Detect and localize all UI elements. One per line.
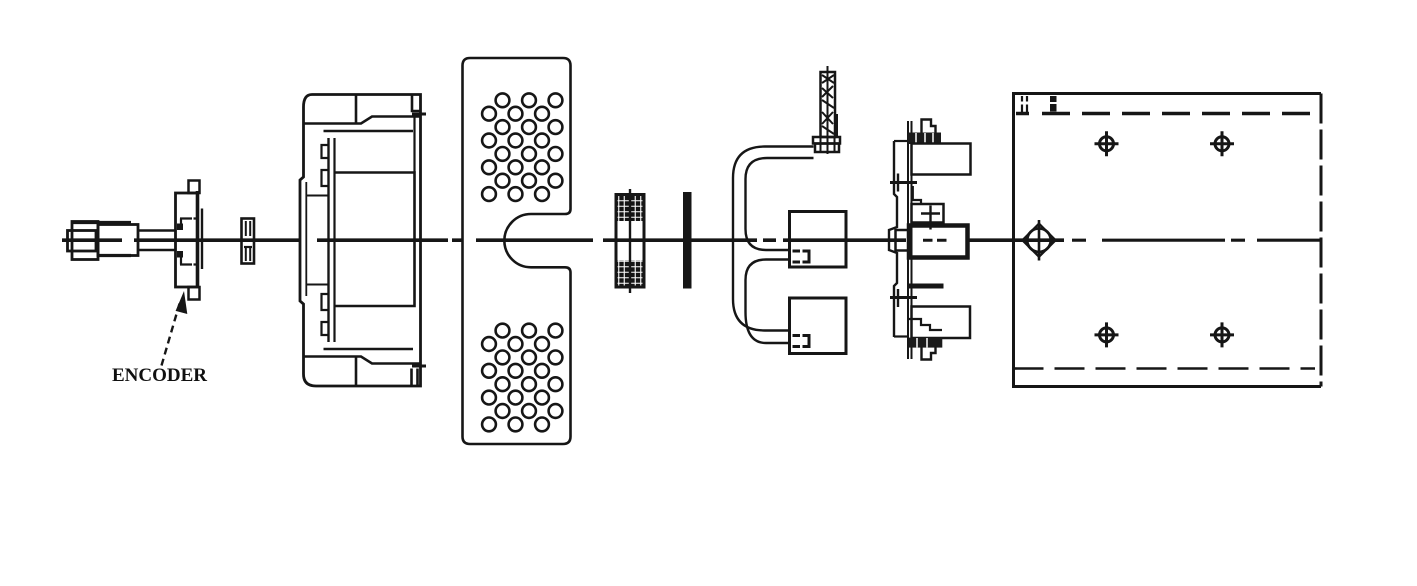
brush plate bottom hatch block — [909, 338, 943, 348]
washer W1 inner dash — [244, 246, 252, 248]
motor body tick 2 lower — [1050, 104, 1057, 112]
brush plate screw cross lower vertical — [897, 289, 899, 307]
washer W1 — [242, 219, 255, 264]
terminal bolt shaft — [821, 72, 836, 137]
end cap top seam — [355, 95, 358, 124]
center pilot hole diamond — [1023, 224, 1056, 257]
encoder top tab — [189, 181, 200, 194]
brush box lower clip bars — [793, 336, 801, 347]
brush wire inner edge — [746, 158, 814, 250]
bearing outer — [616, 195, 644, 288]
brush plate top hatch block — [908, 133, 942, 145]
end cap bottom step line — [304, 357, 421, 364]
shaft knob front cap — [68, 231, 97, 252]
encoder disc outer line — [201, 209, 203, 270]
brush plate lower right rect — [912, 307, 971, 339]
brush box upper clip bars — [793, 251, 801, 262]
vent plate holes top group — [482, 93, 562, 201]
brush stub bar — [909, 284, 944, 289]
end cap top right notch — [412, 95, 421, 112]
brush plate screw cross upper vertical — [897, 174, 899, 192]
brush plate bottom tab — [922, 348, 936, 360]
brush wire outer edge — [733, 147, 814, 331]
encoder hub bracket upper — [180, 219, 198, 231]
motor body bottom hidden dashed line — [1014, 367, 1316, 370]
center pilot hole circle — [1027, 228, 1051, 252]
shaft knob outer shell — [72, 222, 98, 260]
terminal bolt collar — [815, 144, 839, 153]
end cap notch lower B — [322, 322, 329, 335]
label ENCODER — [112, 365, 207, 387]
brush box upper — [790, 212, 847, 268]
mounting hole crosshair top left — [1095, 131, 1119, 156]
brush box upper clip bracket — [803, 251, 810, 262]
wire: centerline dash-dot inside motor body — [1072, 239, 1322, 242]
motor body top hidden dashed line — [1042, 112, 1315, 116]
leader arrowhead — [176, 291, 188, 314]
encoder body — [176, 193, 198, 287]
end cap left boss inner line — [305, 182, 307, 296]
mounting hole crosshair bottom right — [1210, 322, 1234, 347]
brush box lower — [790, 298, 847, 354]
end cap notch upper A — [322, 145, 329, 158]
end cap connector lower — [306, 284, 329, 286]
brush plate upper right rect — [912, 144, 971, 175]
end cap bottom right notch — [412, 369, 418, 387]
brush plate top tie — [894, 140, 908, 142]
end cap bottom right tick — [412, 365, 426, 368]
encoder hub block upper — [177, 224, 183, 231]
encoder bottom tab — [189, 287, 200, 300]
bearing hatch bottom — [618, 261, 643, 286]
brush plate upper step — [913, 186, 921, 205]
brush plate top hatch slits — [916, 133, 933, 144]
end cap connector upper — [306, 195, 329, 197]
brush plate screw cross upper — [890, 181, 917, 184]
end cap top right tick — [412, 113, 426, 116]
brush plate screw cross lower — [890, 296, 917, 299]
end cap bottom inner line — [324, 348, 414, 350]
brush box lower clip bracket — [803, 336, 810, 347]
center pilot hole vertical line — [1038, 220, 1041, 261]
end cap notch lower A — [322, 294, 329, 310]
bearing vertical centerline — [629, 189, 631, 293]
wire: main horizontal centerline segment 1 (shaft through encoder) — [62, 238, 906, 242]
encoder hub block lower — [177, 251, 183, 258]
vent plate holes bottom group — [482, 324, 562, 432]
shaft knob top bar — [72, 221, 131, 224]
vent plate outline — [463, 58, 571, 444]
brush plate lower staircase — [909, 319, 942, 330]
brush wire branch edge — [746, 260, 790, 344]
washer W1 inner walls — [246, 221, 250, 261]
wire: centerline segment through motor body left — [968, 238, 1065, 242]
end cap top inner line — [324, 130, 414, 132]
encoder hub bracket lower — [180, 252, 198, 265]
brush plate left contour — [889, 141, 897, 337]
terminal bolt stem — [827, 66, 829, 154]
end cap bottom seam — [355, 357, 358, 387]
shaft lower edge to encoder — [138, 249, 176, 251]
shaft mid bottom bar — [98, 254, 131, 257]
motor body outline (left/top/bottom solid) — [1014, 94, 1322, 387]
end cap inner wall left — [327, 138, 329, 342]
wire: centerline dashes inside commutator — [923, 239, 947, 242]
shim washer (solid) — [683, 192, 692, 289]
shaft upper edge to encoder — [138, 229, 176, 231]
brush plate main wall double line — [908, 121, 912, 359]
terminal bolt shadow line — [836, 114, 838, 137]
bearing hatch top — [618, 196, 643, 221]
brush plate small box cross — [921, 206, 940, 230]
end cap outer outline — [300, 95, 421, 387]
leader arrow dashed line — [162, 302, 181, 366]
mounting hole crosshair bottom left — [1095, 322, 1119, 347]
brush plate small box with cross — [912, 204, 944, 223]
terminal bolt thread marks — [822, 75, 834, 134]
end cap inner wall right — [333, 138, 335, 342]
motor body right edge dashed — [1320, 94, 1323, 387]
commutator left protrusion — [896, 230, 910, 251]
end cap notch upper B — [322, 170, 329, 186]
end cap inner box — [335, 173, 415, 307]
brush plate bottom tie — [894, 335, 908, 337]
terminal bolt collar verticals — [821, 137, 835, 152]
commutator outer — [909, 226, 968, 258]
encoder disc right edge — [196, 191, 200, 288]
motor body tick 1 — [1022, 96, 1027, 112]
end cap top step line — [304, 117, 421, 124]
shaft mid section — [98, 225, 138, 256]
mounting hole crosshair top right — [1210, 131, 1234, 156]
motor body top hidden line start — [1016, 112, 1029, 116]
motor body tick 2 — [1050, 96, 1057, 102]
terminal bolt flange — [813, 137, 840, 144]
brush plate top tab — [922, 120, 936, 134]
end cap inner right line — [413, 117, 415, 173]
brush plate bottom hatch slits — [917, 338, 927, 348]
